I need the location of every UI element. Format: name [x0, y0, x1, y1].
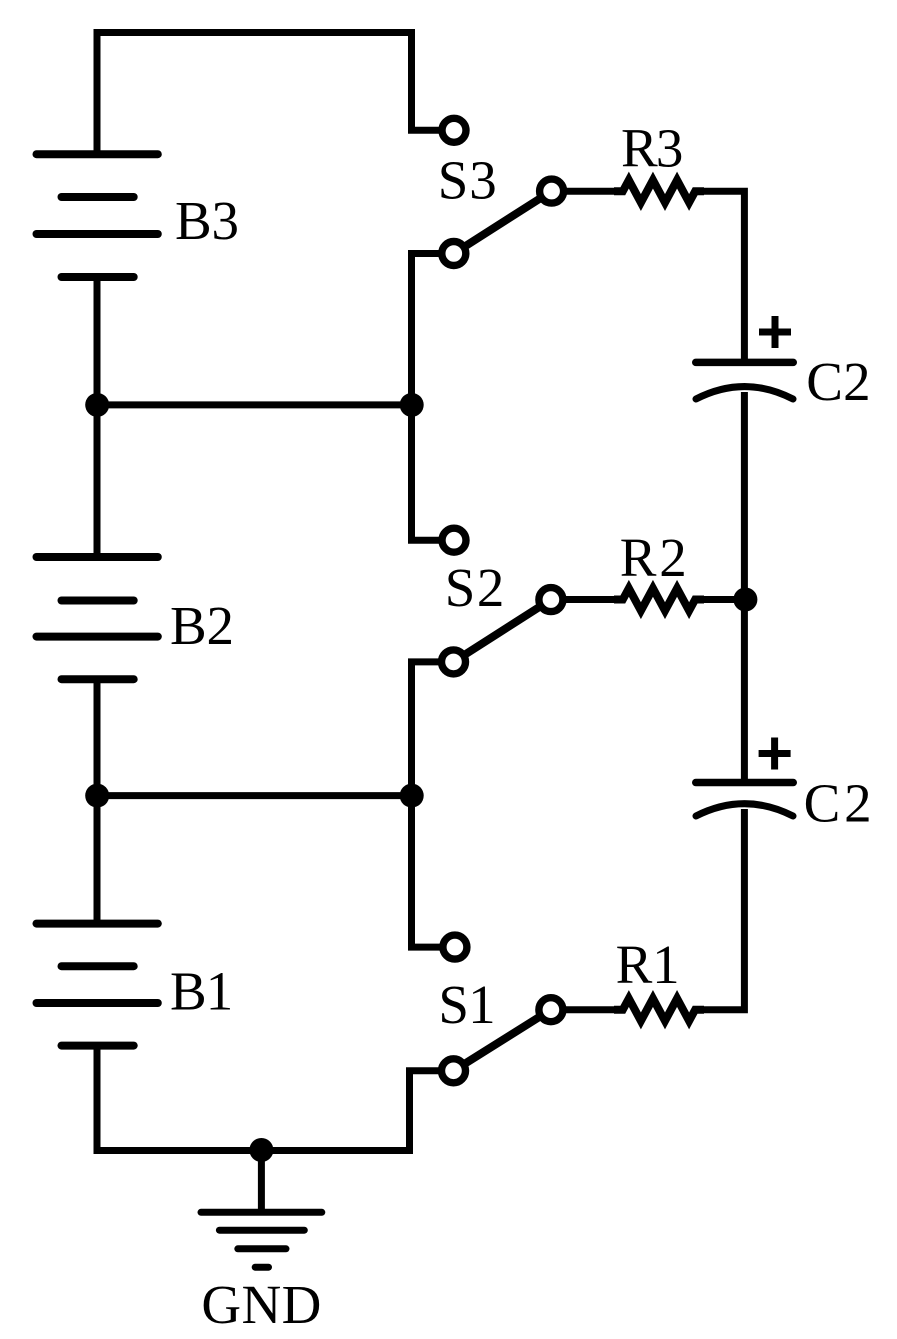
svg-text:R3: R3 [621, 117, 683, 178]
wire B2 negative to node B [94, 676, 101, 796]
resistor R2 [614, 588, 704, 610]
switch S3 arm [454, 191, 552, 253]
switch S1 top terminal circle [443, 935, 467, 959]
switch S1 pole circle [442, 1059, 466, 1083]
wire S3 pole to rail down to S2 top terminal [412, 254, 453, 541]
svg-text:C2: C2 [806, 351, 870, 412]
switch S3 top terminal circle [442, 118, 466, 142]
svg-text:R1: R1 [616, 934, 680, 995]
wire B3 negative to node A [94, 274, 101, 405]
wire R3 to capacitor C2 top [695, 191, 744, 362]
svg-text:R2: R2 [620, 527, 687, 588]
junction node A left dot [85, 393, 109, 417]
battery B1 plates [37, 924, 158, 1046]
capacitor C2 (lower) curved plate [696, 804, 793, 816]
svg-text:C2: C2 [804, 773, 872, 834]
wire node B to battery B1 plus [94, 796, 101, 926]
svg-text:B3: B3 [175, 190, 239, 251]
battery B3 plates [37, 154, 158, 277]
switch S2 arm [454, 600, 551, 662]
ground stub wire [258, 1151, 265, 1213]
wire B1 negative to bottom ground wire to S1 pole [97, 1042, 452, 1151]
svg-text:B1: B1 [170, 960, 233, 1021]
resistor R3 [614, 180, 704, 202]
switch S2 top terminal circle [442, 528, 466, 552]
switch S1 arm [454, 1010, 551, 1071]
wire S2 pole to rail down to S1 top terminal [412, 662, 453, 947]
junction node A right dot [400, 393, 424, 417]
capacitor C2 (upper) plus sign [759, 316, 791, 348]
node B horizontal wire [97, 792, 412, 799]
switch S2 throw circle [539, 588, 563, 612]
wire top loop from battery B3 plus to switch S3 top terminal [97, 33, 452, 158]
wire node C to capacitor C2 lower [741, 600, 748, 783]
capacitor C2 (upper) curved plate [696, 387, 793, 399]
svg-text:B2: B2 [170, 595, 234, 656]
junction node B left dot [85, 784, 109, 808]
svg-text:S3: S3 [438, 149, 497, 210]
switch S1 throw circle [539, 998, 563, 1022]
junction ground node dot [249, 1138, 273, 1162]
wire S3 throw to R3 [552, 188, 623, 195]
ground symbol [201, 1212, 322, 1267]
svg-text:S1: S1 [438, 974, 495, 1035]
capacitor C2 (upper) top plate [696, 359, 794, 367]
wire R2 to node C [695, 596, 745, 603]
junction node C dot [733, 588, 757, 612]
wire R1 to S1 throw [551, 1006, 623, 1013]
wire S2 throw to R2 [551, 596, 623, 603]
junction node B right dot [400, 784, 424, 808]
svg-text:GND: GND [201, 1274, 321, 1335]
wire C2 upper to node C [741, 392, 748, 600]
switch S2 pole circle [442, 650, 466, 674]
resistor R1 [614, 999, 704, 1021]
wire C2 lower to R1 [695, 809, 744, 1010]
battery B2 plates [37, 557, 158, 679]
capacitor C2 (lower) top plate [696, 779, 794, 787]
capacitor C2 (lower) plus sign [759, 738, 791, 770]
svg-text:S2: S2 [445, 557, 505, 618]
switch S3 pole circle [442, 242, 466, 266]
switch S3 throw circle [540, 179, 564, 203]
node A horizontal wire [97, 401, 412, 408]
wire node A to battery B2 plus [94, 405, 101, 560]
